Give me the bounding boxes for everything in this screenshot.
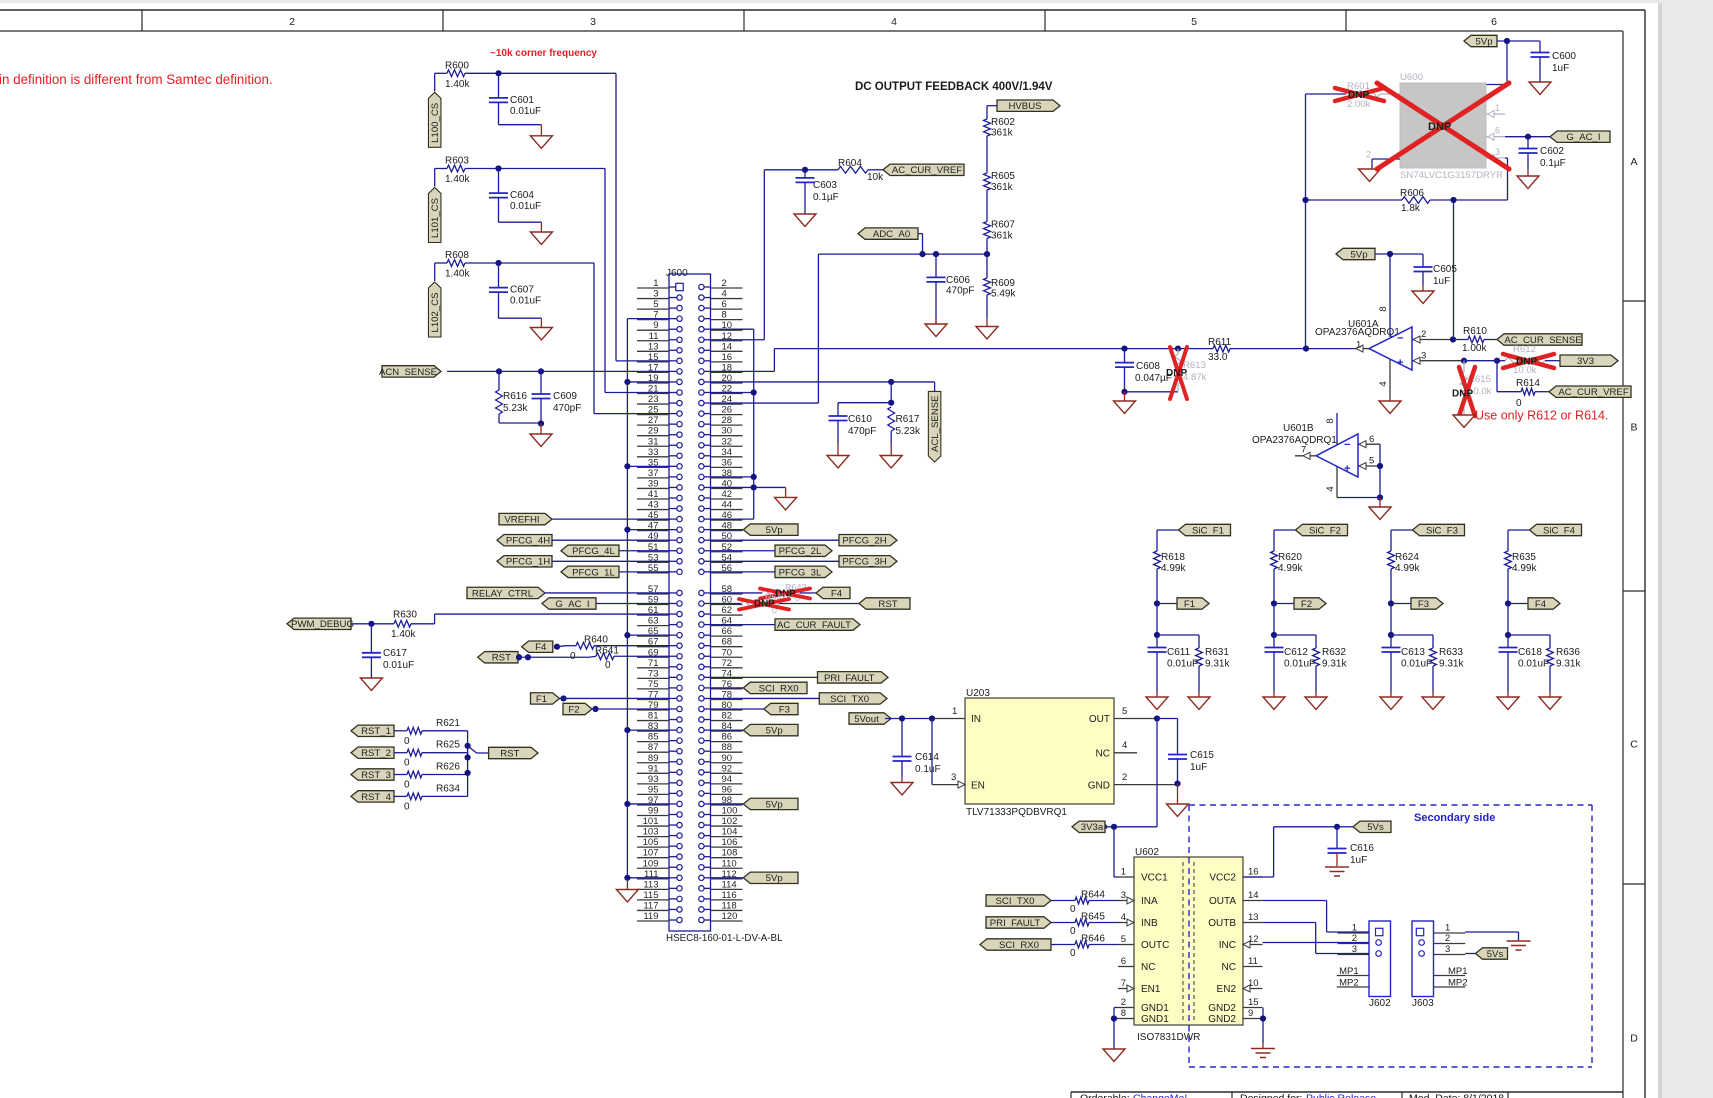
svg-text:103: 103 [643,827,659,838]
svg-text:361k: 361k [991,128,1014,139]
svg-text:14: 14 [1248,890,1259,901]
svg-text:31: 31 [648,436,659,447]
svg-text:OUTA: OUTA [1209,896,1236,907]
svg-text:115: 115 [643,890,658,901]
svg-text:5: 5 [1191,16,1197,28]
svg-text:F3: F3 [1418,599,1429,610]
svg-text:5Vs: 5Vs [1367,822,1384,833]
svg-text:9.31k: 9.31k [1322,659,1347,670]
svg-text:119: 119 [643,911,658,922]
svg-text:2: 2 [289,16,295,28]
svg-text:9.31k: 9.31k [1439,659,1464,670]
svg-text:0: 0 [1070,926,1076,937]
svg-text:VREFHI: VREFHI [504,515,539,526]
svg-text:361k: 361k [991,231,1014,242]
svg-text:R616: R616 [503,391,527,402]
svg-text:32: 32 [722,436,733,447]
svg-text:68: 68 [722,637,733,648]
svg-text:R625: R625 [436,740,460,751]
svg-text:117: 117 [643,900,658,911]
svg-text:63: 63 [648,616,659,627]
svg-text:2: 2 [1122,772,1127,783]
svg-text:PFCG_2H: PFCG_2H [842,536,886,547]
svg-text:5Vp: 5Vp [1475,36,1492,47]
svg-text:DNP: DNP [1348,90,1369,101]
svg-text:INA: INA [1141,896,1158,907]
svg-text:PFCG_1H: PFCG_1H [506,557,550,568]
svg-text:16: 16 [1248,867,1259,878]
svg-text:U600: U600 [1400,72,1423,83]
svg-text:RST: RST [878,599,897,610]
svg-text:C610: C610 [848,414,872,425]
svg-text:G_AC_I: G_AC_I [1566,132,1600,143]
svg-text:SCI_TX0: SCI_TX0 [996,896,1035,907]
svg-text:106: 106 [722,837,738,848]
svg-text:94: 94 [722,774,733,785]
svg-text:Designed for:: Designed for: [1240,1093,1302,1098]
svg-text:100: 100 [722,806,738,817]
svg-text:SCI_TX0: SCI_TX0 [830,694,869,705]
svg-text:5Vp: 5Vp [766,799,783,810]
svg-text:PFCG_1L: PFCG_1L [572,567,615,578]
svg-text:44: 44 [722,500,733,511]
svg-text:8: 8 [1121,1008,1126,1019]
svg-text:62: 62 [722,605,733,616]
svg-text:SCI_RX0: SCI_RX0 [999,940,1039,951]
svg-text:C602: C602 [1540,146,1564,157]
svg-text:29: 29 [648,426,659,437]
svg-text:F3: F3 [779,704,790,715]
svg-text:37: 37 [648,468,659,479]
svg-text:R604: R604 [838,158,862,169]
svg-text:9.31k: 9.31k [1556,659,1581,670]
svg-text:6: 6 [722,299,727,310]
svg-text:1: 1 [1495,103,1500,113]
svg-text:113: 113 [643,879,658,890]
svg-text:F2: F2 [568,704,579,715]
svg-text:75: 75 [648,679,659,690]
svg-text:R602: R602 [991,117,1015,128]
svg-text:Secondary side: Secondary side [1414,812,1495,824]
svg-text:HVBUS: HVBUS [1008,101,1041,112]
svg-text:116: 116 [722,890,737,901]
svg-text:118: 118 [722,900,737,911]
svg-text:9: 9 [1248,1008,1253,1019]
svg-text:DC OUTPUT FEEDBACK 400V/1.94V: DC OUTPUT FEEDBACK 400V/1.94V [855,81,1053,93]
svg-text:4.99k: 4.99k [1512,563,1537,574]
svg-text:NC: NC [1096,749,1110,760]
svg-text:93: 93 [648,774,659,785]
svg-text:1uF: 1uF [1552,63,1569,74]
svg-text:INC: INC [1219,940,1236,951]
svg-text:114: 114 [722,879,737,890]
svg-text:R632: R632 [1322,647,1346,658]
svg-text:GND1: GND1 [1141,1014,1169,1025]
svg-text:R614: R614 [1516,378,1540,389]
svg-text:C617: C617 [383,648,407,659]
svg-text:+: + [1397,357,1403,369]
svg-text:R635: R635 [1512,552,1536,563]
svg-text:0.01uF: 0.01uF [510,106,541,117]
svg-text:Public Release: Public Release [1306,1093,1376,1098]
svg-text:GND2: GND2 [1208,1014,1236,1025]
svg-text:95: 95 [648,784,659,795]
svg-text:AC_CUR_VREF: AC_CUR_VREF [1558,387,1629,398]
svg-text:PFCG_4H: PFCG_4H [506,536,550,547]
svg-text:−: − [1344,439,1350,451]
svg-text:J603: J603 [1412,998,1434,1009]
svg-text:9.31k: 9.31k [1205,659,1230,670]
svg-text:42: 42 [722,489,733,500]
svg-text:R630: R630 [393,610,417,621]
svg-text:OPA2376AQDRQ1: OPA2376AQDRQ1 [1252,435,1337,446]
svg-text:ChangeMe!: ChangeMe! [1133,1093,1187,1098]
svg-text:99: 99 [648,806,659,817]
svg-text:in definition is different fro: in definition is different from Samtec d… [0,72,273,87]
svg-text:SiC_F2: SiC_F2 [1309,525,1341,536]
svg-text:0: 0 [1516,398,1522,409]
svg-text:4: 4 [1378,381,1389,386]
svg-text:104: 104 [722,827,738,838]
svg-text:23: 23 [648,394,659,405]
svg-text:1.40k: 1.40k [445,174,470,185]
svg-text:470pF: 470pF [553,403,581,414]
svg-text:C612: C612 [1284,647,1308,658]
svg-text:6: 6 [1121,956,1126,967]
svg-text:GND2: GND2 [1208,1003,1236,1014]
svg-text:C607: C607 [510,285,534,296]
svg-text:3: 3 [1121,890,1126,901]
svg-text:0: 0 [404,736,410,747]
svg-text:91: 91 [648,763,659,774]
svg-text:SN74LVC1G3157DRYR: SN74LVC1G3157DRYR [1400,170,1503,181]
svg-text:PFCG_2L: PFCG_2L [779,546,822,557]
svg-text:5.23k: 5.23k [503,403,528,414]
svg-text:DNP: DNP [1166,368,1187,379]
svg-text:PFCG_3H: PFCG_3H [842,557,886,568]
svg-text:16: 16 [722,352,733,363]
svg-text:0.01uF: 0.01uF [1518,659,1549,670]
svg-text:NC: NC [1141,962,1155,973]
svg-text:1uF: 1uF [1350,855,1367,866]
svg-text:88: 88 [722,742,733,753]
svg-text:ISO7831DWR: ISO7831DWR [1137,1032,1200,1043]
svg-text:1.40k: 1.40k [445,269,470,280]
svg-text:0: 0 [1070,904,1076,915]
svg-text:4: 4 [1122,740,1127,751]
svg-text:R607: R607 [991,220,1015,231]
svg-text:5: 5 [653,299,658,310]
svg-text:0.01uF: 0.01uF [1401,659,1432,670]
svg-text:71: 71 [648,658,659,669]
svg-text:0.01uF: 0.01uF [383,660,414,671]
svg-text:VCC1: VCC1 [1141,873,1168,884]
svg-text:R626: R626 [436,762,460,773]
svg-text:85: 85 [648,732,659,743]
svg-text:6: 6 [1369,434,1374,445]
svg-text:0: 0 [570,651,576,662]
svg-text:RST_1: RST_1 [361,726,391,737]
svg-text:ADC_A0: ADC_A0 [873,229,910,240]
svg-text:82: 82 [722,711,733,722]
svg-text:R636: R636 [1556,647,1580,658]
svg-text:92: 92 [722,763,733,774]
svg-text:34: 34 [722,447,733,458]
svg-text:J602: J602 [1369,998,1391,1009]
svg-text:3: 3 [590,16,596,28]
svg-text:30: 30 [722,426,733,437]
svg-text:GND: GND [1088,781,1110,792]
svg-text:R612: R612 [1513,344,1536,355]
svg-text:C604: C604 [510,190,534,201]
svg-text:1: 1 [1121,867,1126,878]
svg-text:0.01uF: 0.01uF [1167,659,1198,670]
svg-text:66: 66 [722,626,733,637]
svg-text:L102_CS: L102_CS [430,292,441,332]
svg-text:109: 109 [643,858,659,869]
svg-text:RST_2: RST_2 [361,748,391,759]
svg-text:36: 36 [722,457,733,468]
svg-text:D: D [1630,1033,1638,1045]
svg-text:81: 81 [648,711,659,722]
svg-text:5: 5 [1121,934,1126,945]
svg-text:NC: NC [1222,962,1236,973]
svg-text:R620: R620 [1278,552,1302,563]
svg-text:87: 87 [648,742,659,753]
svg-text:101: 101 [643,816,659,827]
svg-text:R644: R644 [1081,890,1105,901]
svg-text:SiC_F3: SiC_F3 [1426,525,1458,536]
svg-text:33: 33 [648,447,659,458]
svg-text:C601: C601 [510,95,534,106]
svg-text:8: 8 [1378,306,1389,311]
svg-text:89: 89 [648,753,659,764]
svg-text:F1: F1 [536,694,547,705]
svg-text:15: 15 [648,352,659,363]
svg-text:1: 1 [653,278,658,289]
svg-text:EN1: EN1 [1141,984,1161,995]
svg-text:U602: U602 [1135,847,1159,858]
svg-text:2: 2 [1445,933,1450,944]
svg-text:2: 2 [722,278,727,289]
svg-text:0: 0 [605,660,611,671]
svg-text:EN: EN [971,781,985,792]
svg-text:OPA2376AQDRQ1: OPA2376AQDRQ1 [1315,327,1400,338]
svg-text:1uF: 1uF [1190,762,1207,773]
svg-text:27: 27 [648,415,659,426]
svg-text:102: 102 [722,816,738,827]
svg-text:72: 72 [722,658,733,669]
svg-text:R631: R631 [1205,647,1229,658]
svg-text:F4: F4 [1535,599,1547,610]
svg-text:SiC_F1: SiC_F1 [1192,525,1224,536]
svg-text:3V3a: 3V3a [1081,822,1104,833]
svg-text:33.0: 33.0 [1208,352,1228,363]
svg-text:C614: C614 [915,752,939,763]
svg-text:0.1µF: 0.1µF [813,192,839,203]
svg-text:5.49k: 5.49k [991,289,1016,300]
svg-text:21: 21 [648,384,659,395]
svg-text:F2: F2 [1301,599,1312,610]
svg-text:G_AC_I: G_AC_I [555,599,589,610]
svg-text:A: A [1630,156,1637,168]
svg-text:1uF: 1uF [1433,276,1450,287]
svg-text:SiC_F4: SiC_F4 [1543,525,1576,536]
svg-text:70: 70 [722,647,733,658]
svg-text:R606: R606 [1400,188,1424,199]
svg-text:3V3: 3V3 [1577,356,1594,367]
svg-text:OUTB: OUTB [1208,918,1236,929]
svg-text:B: B [1630,422,1637,434]
svg-text:10k: 10k [867,172,884,183]
svg-text:R624: R624 [1395,552,1419,563]
svg-text:0: 0 [404,780,410,791]
svg-text:5Vp: 5Vp [766,525,783,536]
svg-text:PRI_FAULT: PRI_FAULT [990,918,1041,929]
svg-text:0.01uF: 0.01uF [510,201,541,212]
svg-text:2: 2 [1366,150,1371,160]
svg-text:L101_CS: L101_CS [430,198,441,238]
svg-text:4.99k: 4.99k [1278,563,1303,574]
svg-text:RST: RST [492,653,511,664]
svg-text:11: 11 [1248,956,1258,967]
svg-text:PWM_DEBUG: PWM_DEBUG [291,619,354,630]
svg-text:4.99k: 4.99k [1395,563,1420,574]
svg-text:C603: C603 [813,180,837,191]
svg-text:R617: R617 [896,414,920,425]
svg-text:ACN_SENSE: ACN_SENSE [379,367,437,378]
svg-text:0.1uF: 0.1uF [915,764,941,775]
svg-text:73: 73 [648,668,659,679]
svg-text:3: 3 [1445,944,1450,955]
svg-text:26: 26 [722,405,733,416]
svg-text:R611: R611 [1208,337,1232,348]
svg-text:HSEC8-160-01-L-DV-A-BL: HSEC8-160-01-L-DV-A-BL [666,933,783,944]
svg-text:GND1: GND1 [1141,1003,1169,1014]
svg-text:R640: R640 [584,635,608,646]
svg-text:5: 5 [1369,456,1374,467]
svg-text:SCI_RX0: SCI_RX0 [759,683,799,694]
svg-text:U601B: U601B [1283,423,1314,434]
svg-text:17: 17 [648,362,659,373]
svg-text:R605: R605 [991,171,1015,182]
svg-text:470pF: 470pF [848,426,876,437]
svg-text:−: − [1397,333,1403,345]
svg-text:39: 39 [648,478,659,489]
svg-text:INB: INB [1141,918,1158,929]
svg-text:RST: RST [500,748,519,759]
svg-text:11: 11 [649,331,659,342]
svg-text:C600: C600 [1552,51,1576,62]
svg-text:43: 43 [648,500,659,511]
svg-text:1: 1 [1445,923,1450,934]
svg-text:R618: R618 [1161,552,1185,563]
svg-text:PRI_FAULT: PRI_FAULT [824,673,875,684]
svg-text:86: 86 [722,732,733,743]
svg-text:PFCG_3L: PFCG_3L [779,567,822,578]
svg-text:1.00k: 1.00k [1462,343,1487,354]
svg-text:3: 3 [653,289,658,300]
svg-text:6: 6 [1495,126,1500,136]
svg-text:RST_4: RST_4 [361,792,392,803]
svg-text:7: 7 [1121,978,1126,989]
svg-text:TLV71333PQDBVRQ1: TLV71333PQDBVRQ1 [966,807,1067,818]
svg-text:R634: R634 [436,783,460,794]
svg-text:6: 6 [1491,16,1497,28]
svg-text:U203: U203 [966,688,990,699]
svg-text:25: 25 [648,405,659,416]
svg-text:ACL_SENSE: ACL_SENSE [930,395,941,452]
svg-text:C611: C611 [1167,647,1191,658]
svg-text:1.40k: 1.40k [445,79,470,90]
svg-text:105: 105 [643,837,659,848]
svg-text:R621: R621 [436,718,460,729]
svg-text:3: 3 [951,772,956,783]
svg-text:C613: C613 [1401,647,1425,658]
svg-text:F4: F4 [535,642,547,653]
svg-text:C606: C606 [946,275,970,286]
svg-text:14: 14 [722,341,733,352]
svg-text:VCC2: VCC2 [1209,873,1236,884]
svg-text:15: 15 [1248,997,1259,1008]
svg-text:C616: C616 [1350,843,1374,854]
svg-text:0: 0 [404,758,410,769]
svg-text:OUT: OUT [1089,714,1110,725]
svg-text:4.99k: 4.99k [1161,563,1186,574]
svg-text:Use only R612 or R614.: Use only R612 or R614. [1475,409,1608,423]
svg-text:5Vp: 5Vp [1350,249,1367,260]
svg-text:R646: R646 [1081,934,1105,945]
svg-text:2: 2 [1421,329,1426,340]
svg-text:C609: C609 [553,391,577,402]
svg-text:0: 0 [1070,948,1076,959]
svg-text:90: 90 [722,753,733,764]
svg-text:1: 1 [1356,340,1361,351]
svg-text:4: 4 [722,289,727,300]
svg-text:Mod. Date: 8/1/2018: Mod. Date: 8/1/2018 [1409,1093,1504,1098]
svg-text:DNP: DNP [754,599,775,610]
svg-text:AC_CUR_VREF: AC_CUR_VREF [892,165,963,176]
svg-text:5Vs: 5Vs [1487,949,1504,960]
svg-text:DNP: DNP [1428,121,1451,133]
svg-text:0.1µF: 0.1µF [1540,158,1566,169]
svg-text:4: 4 [1325,486,1336,491]
svg-text:RST_3: RST_3 [361,770,391,781]
svg-text:PFCG_4L: PFCG_4L [572,546,615,557]
svg-text:5Vp: 5Vp [766,726,783,737]
svg-text:DNP: DNP [1452,389,1473,400]
svg-text:IN: IN [971,714,981,725]
svg-text:110: 110 [722,858,737,869]
svg-text:C615: C615 [1190,750,1214,761]
svg-text:C: C [1630,739,1638,751]
svg-text:0.01uF: 0.01uF [1284,659,1315,670]
svg-text:1.8k: 1.8k [1401,203,1421,214]
svg-text:28: 28 [722,415,733,426]
svg-text:~10k corner frequency: ~10k corner frequency [490,48,597,59]
svg-text:3: 3 [1495,147,1500,157]
svg-text:EN2: EN2 [1217,984,1237,995]
svg-text:F1: F1 [1184,599,1195,610]
svg-text:120: 120 [722,911,738,922]
svg-text:R641: R641 [595,646,619,657]
svg-text:DNP: DNP [1516,357,1537,368]
svg-text:AC_CUR_FAULT: AC_CUR_FAULT [777,620,851,631]
svg-text:0.01uF: 0.01uF [510,296,541,307]
svg-text:C608: C608 [1136,361,1160,372]
svg-text:1.40k: 1.40k [391,629,416,640]
svg-text:R633: R633 [1439,647,1463,658]
